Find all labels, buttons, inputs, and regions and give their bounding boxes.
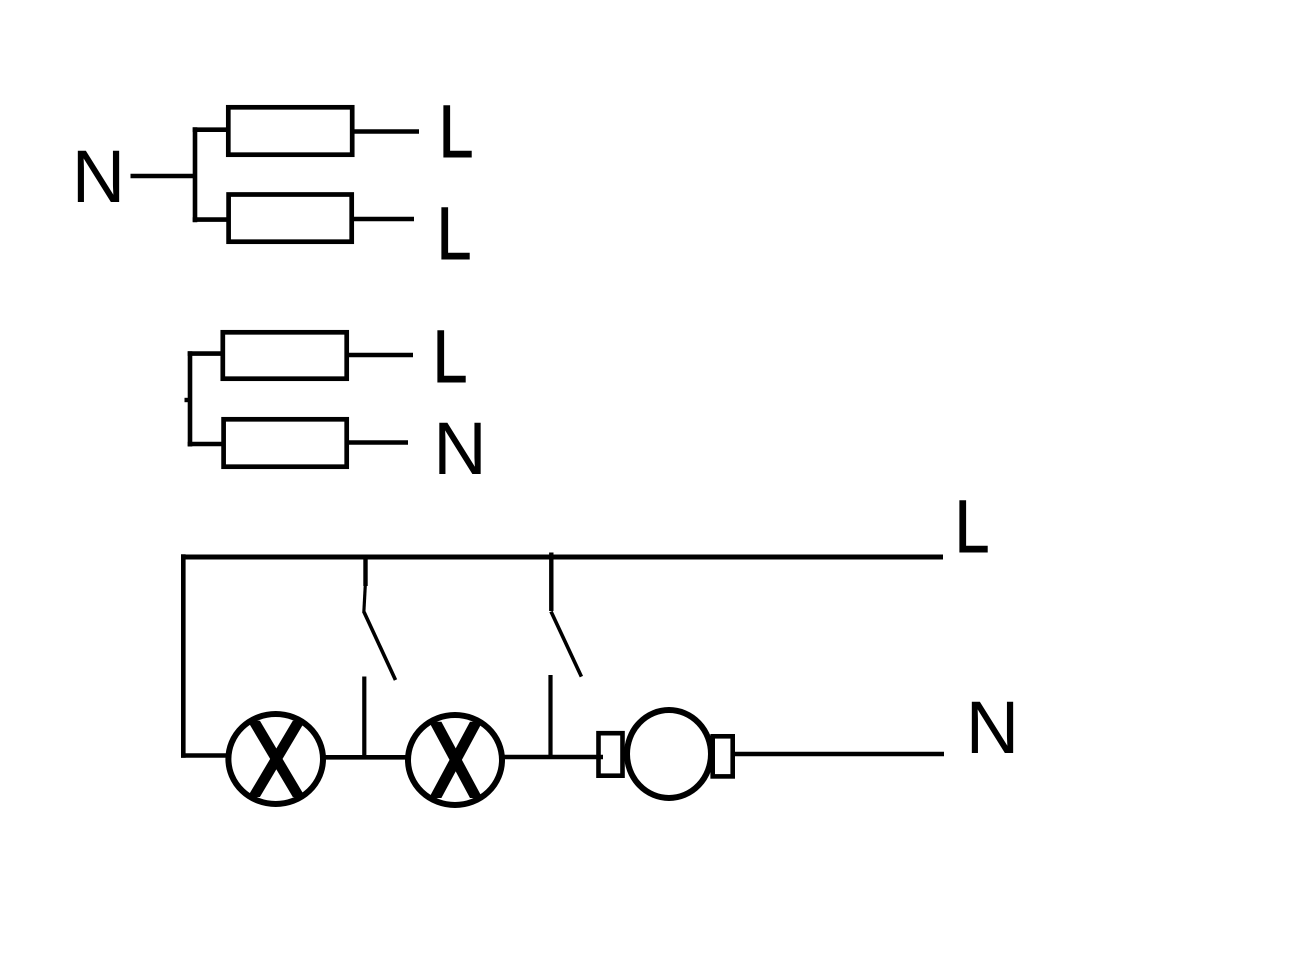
wire bottom branch (group 1) — [193, 217, 227, 222]
load box 1 (group 1 top) — [228, 107, 352, 154]
wire to N (group 2) — [349, 440, 408, 444]
wire bottom branch (group 2) — [188, 442, 223, 447]
wire left drop — [181, 554, 186, 757]
load box 3 (group 2 top) — [223, 332, 347, 378]
motor M — [599, 710, 733, 798]
wire motor to N terminal — [735, 752, 944, 757]
load box 4 (group 2 bottom) — [224, 419, 347, 466]
svg-text:N: N — [433, 407, 486, 490]
load box 2 (group 1 bottom) — [229, 195, 352, 242]
switch S1 — [364, 557, 396, 757]
wire branch bus (group 2) — [188, 351, 193, 446]
switch S2 — [551, 553, 582, 757]
svg-text:N: N — [966, 686, 1019, 769]
wire to L (group 2) — [349, 353, 413, 357]
node tick (group 2 bus) — [185, 398, 191, 402]
svg-text:L: L — [439, 91, 474, 173]
lamp E1 — [228, 714, 323, 804]
svg-text:L: L — [433, 316, 468, 398]
wire branch bus (group 1) — [193, 127, 198, 222]
wire top branch (group 1) — [193, 127, 227, 132]
wire to L (group 1 bottom) — [354, 217, 414, 221]
wire N feed (group 1) — [131, 174, 196, 178]
svg-text:L: L — [955, 486, 990, 568]
svg-text:N: N — [72, 135, 125, 218]
wire bottom left segment — [181, 753, 227, 758]
lamp E2 — [408, 715, 502, 805]
wire top branch (group 2) — [188, 351, 222, 356]
svg-text:L: L — [437, 193, 472, 275]
wire to L (group 1 top) — [355, 129, 420, 133]
wire line L (bottom circuit top rail) — [181, 555, 943, 560]
wire between lamps — [323, 755, 408, 760]
wire lamp E2 to motor — [502, 755, 603, 760]
